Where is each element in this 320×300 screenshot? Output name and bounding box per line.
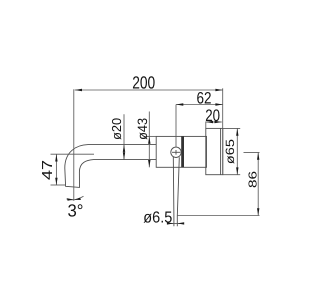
body Ø43 bbox=[156, 136, 206, 167]
extension 47 bottom bbox=[51, 184, 66, 186]
pivot cross vertical bbox=[175, 150, 177, 155]
svg-text:ø6.5: ø6.5 bbox=[143, 209, 172, 226]
extension o43 top bbox=[144, 135, 156, 137]
arrow 86 top bbox=[257, 153, 259, 160]
svg-text:ø20: ø20 bbox=[109, 118, 124, 140]
svg-text:20: 20 bbox=[205, 106, 220, 125]
arrow o20 down bbox=[123, 152, 125, 159]
svg-text:86: 86 bbox=[247, 171, 259, 188]
pivot cross horizontal bbox=[172, 151, 180, 153]
extension line wall right bbox=[222, 88, 224, 174]
arrow 3deg left bbox=[67, 198, 74, 201]
arrow o6.5 left outside bbox=[167, 222, 174, 224]
arrow o65 down bbox=[236, 167, 238, 174]
dim line 47 bbox=[55, 154, 57, 185]
dim line 200 bbox=[75, 89, 223, 91]
extension line 62 left to handle bbox=[175, 105, 177, 148]
extension line left (200) + 3deg reference bbox=[73, 89, 75, 201]
3deg arc bbox=[67, 196, 84, 200]
arrow 200 right bbox=[215, 89, 222, 91]
arrow 47 top bbox=[55, 154, 57, 161]
arrow 200 left bbox=[75, 89, 82, 91]
arrow 62 left bbox=[176, 103, 183, 105]
body groove band bbox=[181, 136, 184, 167]
arrow 86 bottom bbox=[257, 208, 259, 215]
dim line 20 bbox=[206, 121, 222, 123]
dim line 62 bbox=[176, 104, 223, 106]
extension 86 bottom bbox=[177, 215, 259, 217]
wall plate Ø65 bbox=[206, 128, 223, 174]
wall plate inner line bbox=[220, 128, 222, 174]
extension 47 top bbox=[51, 153, 95, 155]
arrow o43 up bbox=[148, 136, 150, 143]
arrow o20 up bbox=[123, 145, 125, 152]
arrow o6.5 right outside bbox=[177, 222, 184, 224]
dim line o65 bbox=[236, 128, 238, 174]
svg-text:ø65: ø65 bbox=[223, 139, 237, 164]
handle pivot circle bbox=[171, 147, 181, 157]
arrow 62 right bbox=[215, 103, 222, 105]
lever rod right edge bbox=[177, 157, 179, 226]
lever rod left edge bbox=[172, 157, 175, 227]
spout outline bbox=[65, 145, 156, 188]
leader o20 bbox=[123, 114, 125, 159]
arrow 47 bottom bbox=[55, 178, 57, 185]
extension line 20 left bbox=[205, 122, 207, 129]
leader o43 bbox=[148, 112, 150, 168]
arrow 20 right bbox=[215, 121, 222, 123]
svg-text:47: 47 bbox=[40, 160, 56, 180]
arrow o43 down bbox=[148, 160, 150, 167]
arrow o65 up bbox=[236, 128, 238, 135]
arrow 3deg right bbox=[74, 198, 81, 200]
extension 86 top bbox=[244, 152, 260, 154]
extension o65 bottom bbox=[223, 174, 241, 176]
dim line 86 bbox=[257, 153, 259, 216]
arrow 20 left bbox=[206, 121, 213, 123]
dim line o6.5 bbox=[167, 222, 184, 224]
svg-text:3°: 3° bbox=[68, 200, 84, 220]
svg-text:200: 200 bbox=[132, 73, 155, 93]
extension o65 top bbox=[223, 127, 241, 129]
svg-text:ø43: ø43 bbox=[135, 118, 150, 140]
